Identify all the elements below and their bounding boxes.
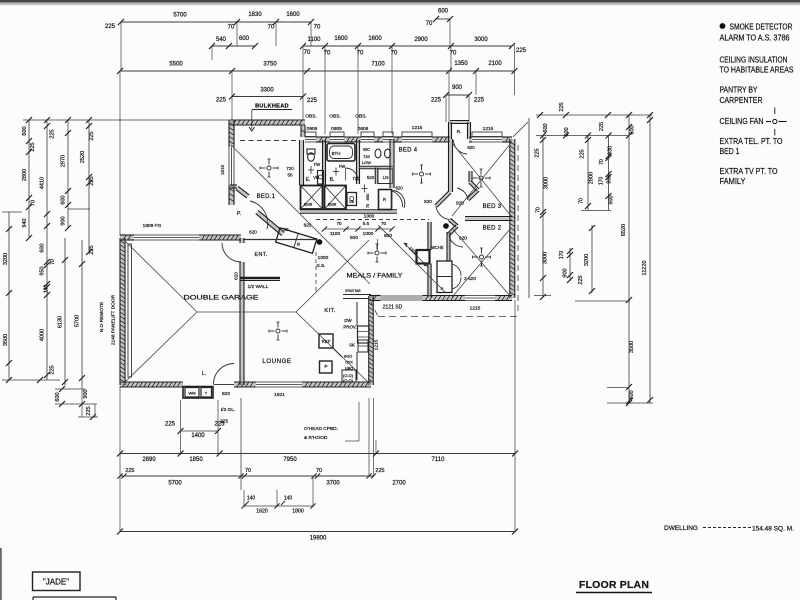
svg-text:1000: 1000	[364, 214, 375, 220]
window bed3 1215	[472, 141, 502, 143]
window wc	[383, 141, 393, 143]
svg-text:5700: 5700	[173, 13, 187, 19]
svg-text:FW: FW	[339, 164, 346, 169]
right wall extension line	[528, 118, 530, 298]
svg-text:600: 600	[40, 243, 46, 252]
svg-text:850: 850	[365, 193, 370, 200]
left feature line y209	[68, 208, 90, 210]
svg-text:CEILING FAN: CEILING FAN	[720, 117, 764, 126]
svg-text:1821: 1821	[274, 392, 285, 398]
svg-text:154.48 SQ. M.: 154.48 SQ. M.	[752, 526, 794, 533]
svg-text:900: 900	[563, 268, 569, 277]
ceiling fan lounge	[276, 329, 280, 333]
svg-text:70: 70	[268, 25, 275, 31]
ohead leader	[358, 402, 360, 441]
shower box 2	[325, 186, 347, 210]
svg-text:140: 140	[284, 496, 293, 502]
svg-text:R.: R.	[457, 129, 462, 135]
hall vanity	[347, 193, 357, 206]
svg-text:2100: 2100	[488, 61, 502, 67]
dim row T5b 900	[446, 94, 469, 96]
svg-text:WM: WM	[188, 391, 195, 396]
hall dim row	[325, 228, 393, 230]
svg-text:520: 520	[367, 175, 375, 180]
dim row B 225/5700/70/3700/70/2700/225	[120, 475, 374, 477]
lounge top wall thin	[243, 239, 316, 241]
svg-text:DOUBLE GARAGE: DOUBLE GARAGE	[184, 295, 259, 302]
svg-text:3000: 3000	[543, 252, 549, 264]
window lounge 1821	[256, 386, 302, 388]
right feature line y387	[607, 387, 629, 389]
svg-text:5.5: 5.5	[363, 221, 370, 226]
window garage 1809 FG	[134, 239, 199, 241]
svg-text:SHR: SHR	[328, 202, 337, 207]
svg-text:B.: B.	[330, 177, 335, 183]
svg-text:0906: 0906	[307, 126, 318, 132]
svg-text:SHR: SHR	[304, 202, 313, 207]
garage left wall	[121, 238, 125, 385]
svg-text:70: 70	[316, 468, 322, 474]
washing machine WM	[185, 388, 199, 398]
svg-text:VB: VB	[349, 200, 355, 204]
dim T2 600	[436, 18, 450, 20]
svg-text:LN: LN	[383, 175, 389, 180]
svg-text:1809 FG: 1809 FG	[143, 223, 162, 229]
eaves dashed east	[517, 145, 519, 314]
bed1 east wall	[300, 140, 303, 185]
left chain x9 3200/3500	[8, 212, 10, 380]
svg-text:CARPENTER: CARPENTER	[720, 96, 763, 105]
left chain x82 5700	[81, 240, 83, 385]
svg-text:2148 PANELIFT DOOR: 2148 PANELIFT DOOR	[111, 294, 117, 345]
robe box R top	[449, 122, 451, 139]
ensuite toilet	[307, 149, 315, 154]
svg-text:3000: 3000	[474, 37, 488, 43]
svg-text:70: 70	[579, 198, 585, 204]
left feature line y212	[2, 211, 22, 213]
svg-text:LOUNGE: LOUNGE	[262, 358, 291, 365]
svg-text:DWELLING: DWELLING	[664, 525, 698, 532]
svg-text:BULKHEAD: BULKHEAD	[255, 104, 289, 110]
svg-text:1810: 1810	[220, 164, 225, 175]
svg-text:1850: 1850	[189, 457, 203, 463]
svg-text:0606: 0606	[358, 126, 369, 132]
front door arc 820	[214, 364, 235, 385]
svg-text:1215: 1215	[483, 126, 494, 132]
svg-text:& R'HOOD: & R'HOOD	[304, 435, 328, 441]
breakfast bar	[343, 294, 371, 296]
bulkhead top wall	[230, 121, 305, 125]
left feature line y380	[2, 379, 60, 381]
svg-text:3200: 3200	[584, 254, 590, 266]
svg-text:70: 70	[381, 221, 387, 226]
tub T	[201, 388, 212, 398]
svg-text:225: 225	[580, 149, 586, 158]
svg-text:2970: 2970	[61, 155, 67, 167]
dim row D 19800	[120, 531, 515, 533]
ceiling fan bed4	[420, 172, 424, 176]
svg-text:KIT.: KIT.	[324, 308, 335, 314]
svg-text:4410: 4410	[40, 177, 46, 189]
svg-text:1600: 1600	[368, 36, 382, 42]
svg-text:E.: E.	[306, 177, 311, 183]
ensuite vanity VB	[318, 171, 324, 185]
svg-text:3750: 3750	[263, 62, 277, 68]
svg-text:225: 225	[307, 98, 318, 104]
svg-text:3700: 3700	[326, 481, 340, 487]
kitchen island P	[320, 361, 333, 373]
svg-text:TO HABITABLE AREAS: TO HABITABLE AREAS	[720, 66, 794, 75]
svg-text:720: 720	[363, 154, 370, 159]
top extension lines	[120, 22, 122, 71]
svg-text:"JADE": "JADE"	[43, 578, 69, 587]
ceiling diagonal bed1-kitchen	[231, 145, 370, 284]
right chain x650 11220	[649, 115, 651, 403]
linen box	[378, 169, 393, 184]
svg-text:1830: 1830	[248, 12, 262, 18]
kitchen east wall	[369, 296, 372, 385]
ext line from 600 dim	[449, 19, 451, 46]
svg-text:O'HEAD CPBD.: O'HEAD CPBD.	[304, 426, 338, 432]
dim row T3 540/600	[212, 45, 255, 47]
bed4 west wall	[391, 139, 394, 188]
svg-text:70: 70	[50, 259, 56, 265]
svg-text:19800: 19800	[310, 536, 327, 542]
svg-text:500: 500	[350, 235, 358, 241]
garage hip diagonals	[124, 240, 197, 312]
bulkhead leader arrow	[251, 110, 253, 129]
svg-text:P: P	[324, 364, 327, 369]
svg-text:930: 930	[608, 146, 614, 155]
svg-text:CTX: CTX	[345, 361, 353, 365]
svg-text:2800: 2800	[589, 172, 595, 184]
ceiling diagonal family	[378, 225, 446, 293]
svg-text:2900: 2900	[414, 37, 428, 43]
svg-text:4000: 4000	[40, 329, 46, 341]
sliding door 2121 SD	[381, 299, 423, 301]
hall floor waste	[362, 188, 368, 190]
svg-text:NICHE: NICHE	[430, 245, 443, 250]
dim row T1 5700/1830/1600	[121, 21, 311, 23]
svg-text:820: 820	[222, 391, 230, 397]
svg-text:1350: 1350	[454, 61, 468, 67]
svg-text:225: 225	[50, 365, 56, 374]
window 0909	[330, 141, 344, 143]
svg-text:2890: 2890	[142, 457, 156, 463]
svg-text:950: 950	[40, 266, 46, 275]
svg-text:BED 3: BED 3	[483, 204, 502, 210]
svg-text:140: 140	[247, 496, 256, 502]
entry door arc	[250, 201, 268, 229]
partial box below jade	[33, 596, 116, 598]
svg-text:600: 600	[55, 392, 61, 401]
svg-text:600: 600	[438, 9, 449, 15]
NE corner diagonal	[513, 122, 528, 137]
hall SS dashed line	[315, 252, 317, 294]
svg-text:7100: 7100	[371, 62, 385, 68]
smoke detector note	[720, 23, 726, 29]
svg-text:MEALS / FAMILY: MEALS / FAMILY	[347, 273, 403, 280]
family bed2 wall with niche	[429, 222, 431, 250]
bath door arc 720	[346, 168, 359, 181]
svg-text:PANTRY BY: PANTRY BY	[720, 86, 759, 95]
svg-text:900: 900	[609, 195, 615, 204]
half wall	[240, 277, 280, 280]
svg-text:225: 225	[30, 142, 36, 151]
garage panelift door	[128, 244, 132, 377]
jade title box	[33, 572, 81, 591]
svg-text:OBS.: OBS.	[355, 114, 366, 120]
right chain x592 3200	[591, 225, 593, 293]
hall north wall	[300, 210, 397, 212]
svg-text:600: 600	[22, 126, 28, 135]
bed3 door arc from robe	[454, 140, 468, 154]
svg-text:REF: REF	[322, 339, 331, 344]
svg-text:1620: 1620	[256, 509, 268, 515]
left chain x47	[46, 120, 48, 380]
svg-text:B'FAST BAR: B'FAST BAR	[346, 289, 361, 293]
left lower mini dims	[55, 388, 85, 390]
ent robe R	[276, 228, 317, 254]
svg-text:170: 170	[559, 251, 565, 260]
svg-text:2700: 2700	[392, 481, 406, 487]
window 0906	[305, 141, 316, 143]
ceiling fan bed3	[479, 176, 483, 180]
svg-text:FAMILY: FAMILY	[720, 177, 747, 186]
svg-text:S.S.: S.S.	[316, 263, 325, 269]
svg-text:2800: 2800	[22, 169, 28, 181]
right feature line y210	[581, 210, 611, 212]
svg-text:L.: L.	[202, 371, 206, 377]
svg-text:600: 600	[630, 125, 636, 134]
right feature line y295	[534, 295, 551, 297]
svg-text:820: 820	[424, 199, 432, 204]
top wall bed area	[316, 138, 330, 142]
kitchen bench	[356, 302, 358, 326]
svg-text:7110: 7110	[432, 457, 446, 463]
svg-text:820: 820	[456, 201, 464, 206]
svg-text:11220: 11220	[642, 261, 648, 276]
svg-text:0909: 0909	[331, 126, 342, 132]
svg-text:5500: 5500	[169, 62, 183, 68]
left chain x65 6130	[64, 238, 66, 385]
svg-text:5700: 5700	[75, 315, 81, 327]
svg-text:N.O REMOTE: N.O REMOTE	[99, 302, 105, 332]
svg-text:VB: VB	[313, 175, 319, 180]
scan top border band	[0, 0, 800, 2]
svg-text:T: T	[205, 391, 208, 396]
svg-text:225: 225	[375, 468, 384, 474]
svg-text:1215: 1215	[470, 306, 481, 312]
svg-text:ALARM TO A.S. 3786: ALARM TO A.S. 3786	[720, 34, 790, 43]
svg-text:1215: 1215	[374, 339, 380, 350]
right mini chain x570	[569, 248, 571, 281]
eaves dashed south	[378, 316, 517, 318]
svg-text:DW: DW	[344, 318, 352, 323]
bed4 east wall	[449, 139, 452, 192]
svg-text:R: R	[383, 197, 386, 202]
svg-text:620: 620	[234, 272, 239, 280]
svg-text:720: 720	[286, 166, 294, 171]
svg-text:3300: 3300	[260, 88, 274, 94]
bed2 diagonal X	[452, 228, 511, 297]
svg-text:1600: 1600	[334, 36, 348, 42]
bottom wall	[120, 383, 183, 387]
svg-text:CEILING INSULATION: CEILING INSULATION	[720, 56, 788, 65]
entry splay wall upper	[237, 188, 248, 197]
svg-text:50: 50	[288, 173, 293, 178]
wc pan	[375, 149, 381, 158]
svg-text:EXTRA TEL. PT. TO: EXTRA TEL. PT. TO	[720, 137, 783, 146]
bath wc divider	[357, 140, 359, 184]
svg-text:225: 225	[559, 102, 565, 111]
svg-text:BTH: BTH	[332, 151, 341, 156]
svg-text:600: 600	[61, 195, 67, 204]
svg-text:R: R	[296, 242, 300, 248]
bottom extension lines	[119, 386, 121, 532]
svg-text:225: 225	[89, 245, 95, 254]
right chain x588 2800	[587, 136, 589, 212]
right chain x629 6520/3500/600	[628, 115, 630, 403]
svg-text:SGO: SGO	[344, 355, 352, 359]
svg-text:225: 225	[125, 468, 134, 474]
left chain x29	[28, 120, 30, 238]
svg-text:1100: 1100	[330, 231, 341, 237]
svg-text:ENT.: ENT.	[255, 252, 268, 258]
ceiling fan bed1	[267, 166, 271, 170]
svg-text:225: 225	[535, 148, 541, 157]
svg-text:225: 225	[599, 122, 605, 131]
svg-text:225: 225	[578, 275, 584, 284]
garage top wall	[120, 236, 134, 240]
cooktop	[342, 370, 356, 382]
svg-text:170: 170	[599, 177, 605, 186]
svg-text:70: 70	[426, 21, 433, 27]
svg-text:3200: 3200	[3, 253, 9, 265]
linen wall	[359, 167, 393, 169]
ceiling fan family	[375, 251, 379, 255]
svg-text:LOW: LOW	[362, 160, 371, 165]
svg-text:70: 70	[31, 200, 37, 206]
svg-text:900: 900	[83, 389, 89, 398]
smoke detector dot hall2	[443, 223, 449, 229]
svg-text:225: 225	[89, 176, 95, 185]
svg-text:540: 540	[216, 37, 227, 43]
svg-text:600: 600	[564, 127, 570, 136]
dim row C 140/1620/1800/140	[244, 505, 313, 507]
svg-text:620: 620	[249, 230, 257, 235]
house left wall	[230, 120, 234, 147]
laundry alcove	[183, 387, 213, 399]
svg-text:600: 600	[543, 123, 549, 132]
svg-text:3000: 3000	[544, 177, 550, 189]
right dims connector line	[536, 114, 652, 116]
svg-text:720: 720	[352, 176, 360, 181]
svg-text:3500: 3500	[629, 341, 635, 353]
svg-text:225: 225	[105, 24, 116, 30]
south family wall	[369, 296, 381, 300]
svg-text:900: 900	[452, 85, 463, 91]
svg-text:70: 70	[536, 207, 542, 213]
svg-text:BED 2: BED 2	[483, 226, 502, 232]
svg-text:P.: P.	[237, 211, 241, 217]
svg-text:70: 70	[245, 468, 251, 474]
right feature line y403	[607, 402, 653, 404]
svg-text:SK: SK	[349, 343, 355, 348]
fridge REF	[319, 334, 333, 348]
svg-text:7950: 7950	[283, 457, 297, 463]
svg-text:OBS.: OBS.	[329, 114, 340, 120]
hall robe R	[379, 190, 392, 210]
svg-text:225: 225	[50, 129, 56, 138]
svg-text:1600: 1600	[286, 12, 300, 18]
left chain x89	[88, 120, 90, 252]
svg-text:1000: 1000	[318, 255, 329, 261]
right feature line y135	[536, 135, 629, 137]
svg-text:830: 830	[607, 174, 613, 183]
bed3 bed2 divider wall	[465, 217, 512, 220]
svg-text:600: 600	[629, 390, 635, 399]
right chain x543	[542, 136, 544, 298]
svg-text:70: 70	[336, 221, 342, 226]
svg-text:225: 225	[431, 98, 442, 104]
svg-text:225: 225	[516, 48, 527, 54]
bottom mini dim 1400	[181, 430, 219, 432]
svg-text:70: 70	[304, 50, 311, 56]
garage door arc to lounge	[222, 243, 241, 262]
left dims connector line	[23, 119, 231, 121]
bed3 diagonal X	[452, 143, 511, 216]
svg-text:1000: 1000	[363, 231, 374, 237]
svg-text:3500: 3500	[3, 334, 9, 346]
svg-text:70: 70	[228, 25, 235, 31]
svg-text:225: 225	[89, 131, 95, 140]
svg-text:225: 225	[165, 422, 176, 428]
dim row T5 3300	[232, 96, 303, 98]
niche dim 1500	[404, 243, 427, 266]
svg-text:2520: 2520	[80, 151, 86, 163]
hall dashed ceiling line	[316, 219, 429, 221]
svg-text:940: 940	[22, 218, 28, 227]
svg-text:600: 600	[239, 36, 250, 42]
svg-text:900: 900	[61, 216, 67, 225]
svg-text:BED.1: BED.1	[257, 194, 276, 200]
shower box 1	[301, 186, 323, 210]
hall robe door arc	[393, 191, 405, 209]
svg-text:1800: 1800	[292, 509, 304, 515]
svg-text:70: 70	[599, 159, 605, 165]
svg-text:6130: 6130	[58, 316, 64, 328]
dim row T4 5500/3750/7100/1350/2100	[120, 70, 515, 72]
dim row A 2890/1850/7950/7110	[120, 453, 515, 455]
svg-text:225: 225	[214, 422, 225, 428]
entry splay wall lower	[257, 212, 283, 234]
svg-text:225: 225	[474, 98, 485, 104]
svg-text:70: 70	[314, 25, 321, 31]
svg-text:70: 70	[366, 204, 370, 208]
svg-text:FLOOR PLAN: FLOOR PLAN	[579, 579, 649, 591]
central robes zigzag	[436, 192, 450, 206]
window sill boxes	[305, 132, 316, 137]
svg-text:BED 4: BED 4	[399, 148, 418, 154]
wall jog at x303	[302, 125, 305, 137]
garage lounge divider wall	[241, 238, 244, 243]
svg-text:SMOKE DETECTOR: SMOKE DETECTOR	[730, 23, 793, 32]
svg-text:2121 SD: 2121 SD	[383, 305, 403, 311]
svg-text:EXTRA TV PT. TO: EXTRA TV PT. TO	[720, 167, 778, 176]
svg-text:1/2 WALL: 1/2 WALL	[248, 284, 269, 290]
svg-text:BED 1: BED 1	[720, 147, 740, 156]
